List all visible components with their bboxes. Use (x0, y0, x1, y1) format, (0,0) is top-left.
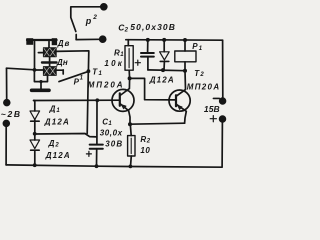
node D2 bottom (33, 163, 37, 167)
svg-text:Р: Р (192, 42, 198, 51)
node D1-D2 (33, 132, 37, 136)
svg-text:2: 2 (146, 139, 151, 145)
node T1 emitter (128, 122, 132, 126)
transistor T1 (112, 79, 134, 125)
node junction sensor-left (33, 68, 37, 72)
node T1 collector (128, 76, 132, 80)
sensor top armature bar (26, 38, 57, 45)
wire Dn left stub (35, 69, 44, 71)
svg-text:Дн: Дн (56, 58, 68, 67)
wire (6, 68, 8, 100)
resistor R2 (128, 124, 135, 166)
svg-text:30В: 30В (105, 139, 122, 148)
wire D1D2 junction to C1 (35, 134, 97, 137)
resistor R1 (125, 40, 133, 79)
wire Dv left stub (38, 52, 43, 54)
svg-text:Д: Д (48, 139, 55, 148)
node D3 top (162, 38, 166, 42)
wire (48, 42, 50, 48)
capacitor C2 (135, 40, 154, 70)
wire left border (5, 126, 7, 165)
svg-text:15В: 15В (204, 104, 220, 114)
svg-text:2: 2 (124, 27, 129, 33)
svg-text:р: р (85, 16, 92, 26)
label minus (213, 97, 219, 99)
node R2 bottom (129, 165, 133, 169)
svg-text:2: 2 (54, 142, 59, 148)
svg-text:Д: Д (49, 105, 56, 114)
wire bottom rail (6, 122, 222, 168)
wire C1 vertical (96, 100, 98, 143)
svg-text:2: 2 (199, 72, 204, 78)
node base-C1 (95, 98, 99, 102)
switch P2 (71, 4, 107, 42)
capacitor C1 (86, 145, 102, 167)
node relay top (183, 38, 187, 42)
wire from AC terminal to sensor (7, 68, 35, 70)
terminal ~2V lower (3, 121, 9, 127)
diode D2 (30, 134, 40, 165)
diode D3 (across relay) (160, 40, 170, 70)
wire emitter rail (130, 123, 185, 124)
wire Dn right stub contact (56, 70, 63, 74)
svg-text:МП20А: МП20А (187, 82, 220, 91)
terminal -15V (220, 98, 226, 104)
svg-text:Дв: Дв (57, 39, 70, 48)
wire P1 common down (87, 72, 88, 133)
node C2 top (146, 38, 150, 42)
wire (40, 82, 42, 89)
sensor middle armature bar (42, 61, 57, 63)
node (39, 80, 42, 83)
node relay bottom (183, 69, 187, 73)
node C1 bottom (95, 164, 99, 168)
svg-text:50,0х30В: 50,0х30В (130, 22, 175, 32)
wire U below Dn (34, 70, 47, 82)
svg-text:10: 10 (140, 146, 150, 155)
transistor T2 (169, 71, 190, 123)
label plus (210, 116, 216, 122)
wire (49, 57, 51, 67)
svg-text:2: 2 (92, 14, 97, 21)
svg-text:~2В: ~2В (1, 109, 20, 119)
wire T1 base (34, 99, 120, 101)
svg-text:МП20А: МП20А (88, 81, 123, 90)
terminal +15V (220, 116, 226, 122)
wire T1 collector to T2 base (130, 78, 176, 100)
coil Dv (sensor upper) (43, 48, 56, 57)
switch P1 blade (59, 72, 88, 82)
svg-text:R: R (140, 135, 146, 144)
wire (34, 42, 36, 70)
wire top rail (126, 39, 223, 42)
svg-text:Д12А: Д12А (45, 151, 70, 160)
wire Dv right to P1 common (56, 51, 89, 71)
wire collector rail (148, 69, 185, 72)
svg-text:Д12А: Д12А (149, 76, 174, 85)
sensor bottom armature bar (32, 89, 49, 93)
relay P1 coil (175, 40, 196, 71)
wire base node (34, 101, 35, 112)
svg-text:30,0х: 30,0х (100, 128, 123, 137)
svg-text:10к: 10к (104, 59, 122, 68)
terminal ~2V upper (4, 100, 10, 106)
coil Dn (sensor lower) (43, 67, 56, 76)
diode D1 (30, 111, 40, 134)
wire right border (222, 40, 224, 98)
svg-text:R: R (114, 49, 120, 58)
node P1 common (87, 69, 91, 73)
node diode bottom (161, 68, 165, 72)
svg-text:Д12А: Д12А (44, 117, 69, 126)
svg-text:С: С (102, 118, 108, 127)
